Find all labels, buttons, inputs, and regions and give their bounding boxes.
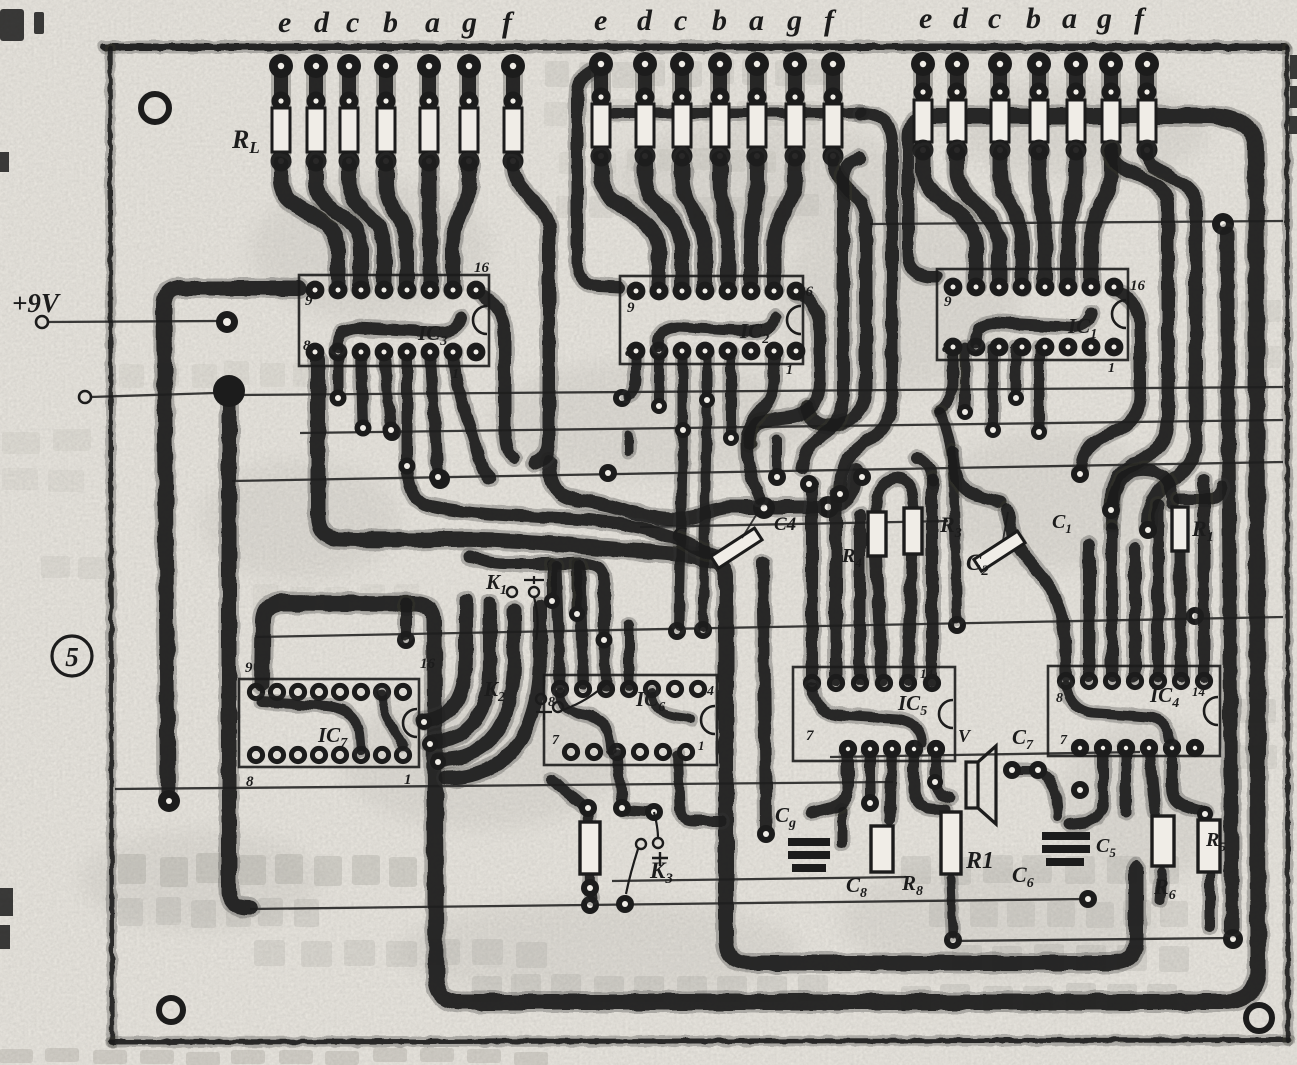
wire group2 outer nested loop from bus corner <box>840 114 892 492</box>
wire segment trace g3 col2 <box>957 152 999 285</box>
resistor R7 body <box>941 812 961 874</box>
svg-text:7: 7 <box>552 733 560 748</box>
svg-text:d: d <box>953 2 969 35</box>
wire long horizontal net A <box>236 387 1283 395</box>
resistor RL column g3-f <box>1137 64 1157 150</box>
wire K court stub K1a <box>544 564 560 598</box>
wire jumper bottom to K3 net <box>590 886 592 898</box>
wire IC5 to C8 pad <box>862 752 879 800</box>
resistor R8 body <box>871 826 893 872</box>
IC5 internal trace <box>812 688 922 742</box>
wire IC1 bottom stub dumbbells <box>957 348 973 410</box>
resistor RL column g3-c <box>990 64 1010 150</box>
resistor RL column g1-a <box>419 66 439 161</box>
op-amp-like DIP outline IC1 <box>937 269 1128 360</box>
wire curl at R3 top right <box>916 458 932 482</box>
IC6 internal traces <box>560 692 611 750</box>
wire segment trace g3 col6 <box>1091 152 1111 285</box>
wire segment trace g1 col6 <box>453 163 469 288</box>
wire jumper J1 vertical with body <box>588 810 590 884</box>
wire C2 court drops into IC4 top pads <box>1007 510 1066 676</box>
wire arch over R4/R3 <box>876 478 914 514</box>
op-amp-like DIP outline IC6 <box>544 675 717 765</box>
resistor RL column g3-e <box>913 64 933 150</box>
wire net under C8 <box>612 877 906 881</box>
resistor RL column g2-f <box>823 64 843 156</box>
wire group3 g loop right of IC1 <box>1111 150 1168 508</box>
svg-text:b: b <box>712 4 727 37</box>
svg-text:e: e <box>919 2 932 35</box>
svg-text:c: c <box>988 2 1001 35</box>
jumper body <box>580 822 600 874</box>
IC5 bottom solder pads <box>839 740 857 758</box>
resistor R4 lead to IC5 <box>876 556 882 680</box>
svg-text:14: 14 <box>700 684 714 699</box>
wire IC5 to R7 <box>914 752 944 810</box>
svg-text:c: c <box>674 4 687 37</box>
capacitor C body (diagonal) <box>711 528 762 568</box>
wire segment trace g2 col3 <box>682 158 705 289</box>
svg-text:14: 14 <box>920 666 934 681</box>
IC3 pin pads <box>306 281 325 300</box>
wire segment trace g2 col6 <box>774 158 795 289</box>
wire K court frame <box>470 556 604 634</box>
resistor RL column g3-b <box>1029 64 1049 150</box>
wire speaker to C6 court <box>1038 772 1058 816</box>
switch K3 contacts <box>636 839 646 849</box>
wire IC4 to R5 <box>1172 748 1205 812</box>
svg-text:9: 9 <box>627 300 635 316</box>
IC4 pin pads <box>1059 674 1072 687</box>
wire IC4 to C5 <box>1118 748 1135 812</box>
wire trunk IC3 pin8 column - wavy middle - right bottom loop <box>318 360 1136 963</box>
wire IC3 bottom pad stubs <box>330 352 347 394</box>
wire IC4 to R6 <box>1149 748 1155 812</box>
resistor RL column g2-d <box>635 64 655 156</box>
wire C8 stub <box>835 810 850 844</box>
resistor RL column g3-g <box>1101 64 1121 150</box>
switch K2 contacts <box>536 694 546 704</box>
svg-text:a: a <box>425 6 440 39</box>
wire trunk from input blob pad down to K3 row <box>229 393 250 908</box>
wire segment trace g2 col1 <box>601 158 659 289</box>
pads at stub ends and trace terminals <box>330 390 347 407</box>
op-amp-like DIP outline IC5 <box>793 667 955 761</box>
IC5 pin pads <box>805 676 818 689</box>
svg-text:1: 1 <box>786 363 793 378</box>
svg-text:16: 16 <box>1130 278 1146 294</box>
wire segment trace g3 col1 <box>923 152 976 285</box>
wire left drop to pad C9 court <box>763 562 766 830</box>
wire right top net <box>870 221 1283 224</box>
svg-text:16: 16 <box>798 284 814 300</box>
wire feed to IC6 pad2 <box>580 566 583 684</box>
wire group2 left bypass loop to IC2 <box>577 68 620 287</box>
svg-text:14: 14 <box>1192 684 1206 699</box>
wire net K3 row <box>250 899 1086 909</box>
resistor R3 body <box>904 508 922 554</box>
svg-text:g: g <box>786 4 802 37</box>
svg-text:5: 5 <box>65 642 79 672</box>
input blob pad <box>213 375 245 407</box>
wire net through middle court <box>640 521 948 527</box>
capacitor C5/C6 body (stacked plates) <box>1042 832 1090 866</box>
IC4 internal trace <box>1066 686 1170 740</box>
wire R7 bottom drop to bottom-right net <box>951 878 953 934</box>
svg-text:7: 7 <box>806 728 814 744</box>
resistor R5 body <box>1198 820 1220 872</box>
wire group2 f bypass into nested loop <box>807 158 866 426</box>
IC4 bottom solder pads <box>1071 739 1089 757</box>
wire arc bundle 4 to jumper court <box>446 606 540 778</box>
wire IC2 pin8 drop to pad <box>628 352 636 396</box>
mounting hole top-left <box>141 94 169 122</box>
svg-text:b: b <box>383 6 398 39</box>
svg-text:g: g <box>461 6 477 39</box>
wire segment trace g2 col5 <box>751 158 757 289</box>
wire IC6 right drop joining trunk <box>678 755 722 821</box>
wire +9V feed line <box>36 316 48 328</box>
svg-text:C: C <box>672 522 687 547</box>
svg-text:+9V: +9V <box>12 288 61 318</box>
IC3 internal trace <box>337 318 461 348</box>
wire IC2 stub drop to net pad right <box>703 402 707 626</box>
wire segment trace g1 col4 <box>386 163 407 288</box>
svg-text:16: 16 <box>420 656 436 672</box>
speaker symbol <box>966 746 996 824</box>
wire arc bundle 3 <box>438 610 514 760</box>
resistor RL column g2-c <box>672 64 692 156</box>
svg-text:e: e <box>278 6 291 39</box>
svg-text:9: 9 <box>245 660 253 676</box>
wire stub right of R1 arch <box>1178 487 1222 499</box>
svg-text:1: 1 <box>452 367 459 382</box>
wire IC2 stub drop to net pad left <box>679 432 683 626</box>
wire drop from hook to court pad <box>769 440 785 472</box>
wire segment trace g1 col3 <box>349 163 384 288</box>
wire segment trace g3 col5 <box>1068 152 1076 285</box>
wire arc bundle K court to IC7 pin16 <box>424 600 466 720</box>
resistor RL column g1-g <box>459 66 479 161</box>
wire segment trace g1 col2 <box>316 163 361 288</box>
wire group3 f bypass big loop right of IC1 <box>1147 150 1196 528</box>
resistor RL column g1-c <box>339 66 359 161</box>
IC1 notch <box>1112 300 1126 328</box>
IC2 internal trace <box>658 317 775 347</box>
IC6 pin pads <box>553 682 566 695</box>
wire IC5 to speaker court <box>936 752 950 798</box>
IC4 notch <box>1204 697 1218 725</box>
svg-text:C4: C4 <box>774 514 796 535</box>
wire IC1 pin8 drop horizontal to C2 pad <box>953 452 1000 502</box>
wire K court stub K1b <box>569 564 585 612</box>
IC1 pin pads <box>944 278 963 297</box>
wire extra nested strand right of IC2 <box>802 158 860 468</box>
op-amp-like DIP outline IC2 <box>620 276 803 364</box>
wire C court riser/drops into IC5 <box>803 484 821 680</box>
wire net bottom-right <box>950 938 1232 941</box>
resistor R6 body <box>1152 816 1174 866</box>
wire common outer ground loop (group3 bus - right side - bottom - left riser to IC7) <box>262 116 1258 1002</box>
svg-text:8: 8 <box>303 338 311 354</box>
wire trunk from group1 f bypass to C/C4 court <box>549 462 856 519</box>
mounting hole bottom-right <box>1246 1005 1272 1031</box>
svg-text:9: 9 <box>944 294 952 310</box>
resistor RL column g2-e <box>591 64 611 156</box>
wire IC6 drop to elbow pads <box>617 755 622 804</box>
wire segment trace g3 col3 <box>1000 152 1022 285</box>
wire left trunk from IC3 to lower-left pad <box>164 288 299 794</box>
wire IC3 pin1 curve to trunk <box>453 352 490 478</box>
wire second terminal line <box>79 391 91 403</box>
wire R5 bottom drop <box>1202 876 1218 928</box>
svg-text:a: a <box>1062 2 1077 35</box>
op-amp-like DIP outline IC7 <box>239 679 419 767</box>
wire IC2 pin16 hook loop <box>749 293 820 444</box>
IC6 notch <box>701 706 715 734</box>
wire segment trace g1 col5 <box>429 163 430 288</box>
wire stub from loop to pad above IC7 pin16 <box>398 604 415 634</box>
wire long horizontal net B <box>300 420 1283 433</box>
op-amp-like DIP outline IC4 <box>1048 666 1220 756</box>
IC7 internal trace <box>262 702 361 750</box>
wire long horizontal net C <box>232 462 1283 481</box>
wire link arc4 to jumper <box>552 780 584 806</box>
svg-text:d: d <box>314 6 330 39</box>
wire IC1 pin8 drop <box>940 348 953 410</box>
wire hook from IC3 pin16 down right side <box>476 292 514 458</box>
wire R6 bottom to loop riser <box>1160 872 1162 900</box>
wire IC5 to C9 <box>812 752 848 812</box>
resistor RL column g2-g <box>785 64 805 156</box>
svg-text:7: 7 <box>1060 733 1068 748</box>
resistor R4 body <box>868 512 886 556</box>
svg-text:g: g <box>1096 2 1112 35</box>
resistor RL column g2-b <box>710 64 730 156</box>
wire segment trace g2 col2 <box>645 158 682 289</box>
resistor RL column g3-d <box>947 64 967 150</box>
IC7 notch <box>403 709 417 737</box>
mounting hole bottom-left <box>159 998 183 1022</box>
wire third wavy trunk strand <box>407 468 718 556</box>
svg-text:d: d <box>637 4 653 37</box>
IC7 pin pads <box>249 685 262 698</box>
resistor R3 lead to IC5 <box>908 556 912 680</box>
junction pads <box>383 423 401 441</box>
capacitor C2 body (diagonal) <box>974 531 1025 571</box>
svg-text:8: 8 <box>625 344 633 360</box>
wire net lower-left <box>115 782 893 789</box>
resistor R1 lead into IC4 <box>1180 552 1181 676</box>
wire IC1 pin16 hook loop <box>1080 290 1140 472</box>
IC2 pin pads <box>627 282 646 301</box>
wire group1 f bypass right of IC3 <box>513 163 549 463</box>
resistor RL column g1-b <box>376 66 396 161</box>
svg-text:c: c <box>346 6 359 39</box>
wire arch over R1 <box>1112 470 1172 524</box>
figure number circled 5 <box>52 636 92 676</box>
svg-text:16: 16 <box>474 260 490 276</box>
svg-text:1: 1 <box>1108 361 1115 376</box>
resistor R1 body <box>1172 507 1188 551</box>
resistor RL column g3-a <box>1066 64 1086 150</box>
IC5 notch <box>939 700 953 728</box>
svg-text:8: 8 <box>246 774 254 790</box>
wire segment trace g3 col4 <box>1039 152 1045 285</box>
resistor RL column g1-d <box>306 66 326 161</box>
wire segment trace g1 col1 <box>281 163 338 288</box>
scan blotches <box>80 80 1240 1000</box>
IC3 notch <box>473 306 487 334</box>
wire segment trace g2 col4 <box>720 158 728 289</box>
svg-text:8: 8 <box>942 340 950 356</box>
wire group3 bus left drop to IC1 <box>908 116 937 277</box>
wire net under IC4 <box>830 752 1140 757</box>
wire feed to IC6 pad1 <box>556 566 560 684</box>
svg-text:e: e <box>594 4 607 37</box>
switch K1 contacts <box>507 587 517 597</box>
wire IC2 bottom stub dumbbells <box>651 352 667 404</box>
wire IC1 court drop to middle net <box>940 412 957 618</box>
capacitor C9 body (stacked plates) <box>788 838 830 872</box>
svg-text:9: 9 <box>305 293 313 309</box>
svg-text:R1: R1 <box>965 848 994 874</box>
svg-text:V: V <box>958 726 972 746</box>
wire drop from net pad to IC6 <box>622 434 636 452</box>
svg-text:1: 1 <box>404 772 412 788</box>
resistor RL column g2-a <box>747 64 767 156</box>
op-amp-like DIP outline IC3 <box>299 275 489 366</box>
wire middle net through K courts <box>256 617 1283 637</box>
IC2 notch <box>787 306 801 334</box>
wire IC4 to C6 <box>1070 748 1103 824</box>
svg-text:1: 1 <box>698 738 705 753</box>
resistor RL column g1-e <box>271 66 291 161</box>
IC1 internal trace <box>975 313 1091 343</box>
wire IC5 to R8 <box>890 752 892 820</box>
wire group2 top bus <box>598 105 862 121</box>
svg-text:a: a <box>749 4 764 37</box>
wire arc bundle 2 <box>430 604 490 742</box>
resistor RL column g1-f <box>503 66 523 161</box>
wire IC2 pin1 drop to C court pad <box>747 352 774 498</box>
wire feed to IC6 pad3 <box>604 640 606 686</box>
svg-text:b: b <box>1026 2 1041 35</box>
wire inner right vertical trunk <box>1227 233 1232 928</box>
capacitor C7 pads link <box>1014 763 1036 778</box>
